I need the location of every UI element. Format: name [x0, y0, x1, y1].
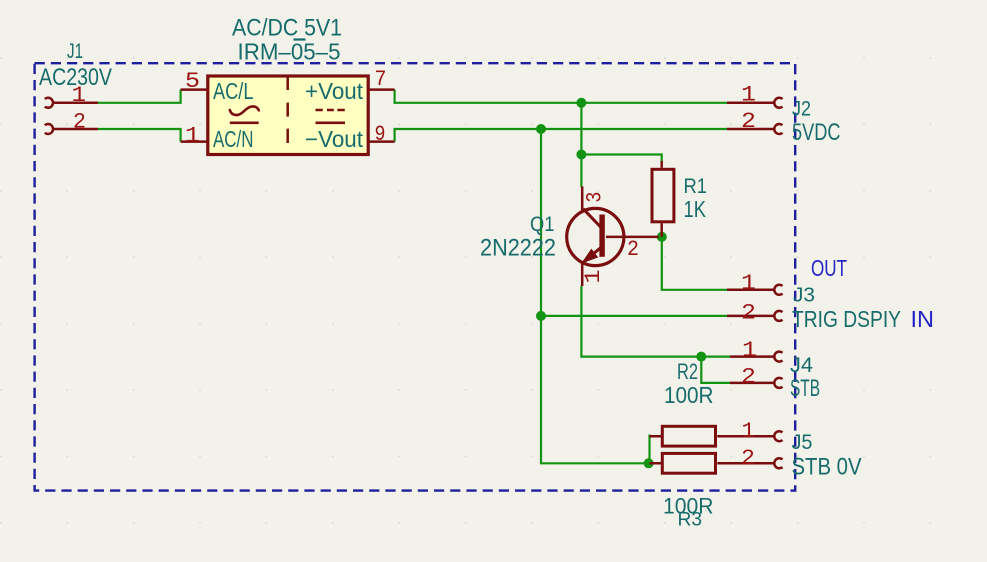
svg-text:AC/N: AC/N: [213, 126, 254, 152]
svg-text:TRIG DSPIY: TRIG DSPIY: [792, 306, 901, 332]
svg-text:2: 2: [741, 301, 756, 326]
svg-text:2N2222: 2N2222: [480, 235, 556, 262]
svg-text:J2: J2: [792, 98, 811, 121]
svg-text:1: 1: [581, 270, 606, 284]
svg-text:J5: J5: [792, 430, 813, 454]
svg-text:R2: R2: [677, 359, 698, 384]
svg-text:IRM–05–5: IRM–05–5: [238, 39, 341, 65]
svg-text:2: 2: [741, 109, 756, 134]
svg-text:1: 1: [741, 83, 756, 108]
svg-text:−Vout: −Vout: [305, 126, 364, 152]
svg-text:1: 1: [742, 419, 756, 444]
svg-text:2: 2: [741, 365, 756, 390]
svg-text:Q1: Q1: [530, 213, 555, 236]
svg-text:2: 2: [73, 110, 86, 135]
svg-text:R3: R3: [678, 509, 703, 531]
svg-text:J1: J1: [67, 40, 83, 63]
svg-text:STB 0V: STB 0V: [792, 454, 863, 481]
svg-text:1K: 1K: [684, 196, 707, 222]
svg-text:3: 3: [582, 192, 607, 203]
svg-text:100R: 100R: [664, 382, 714, 408]
svg-text:5VDC: 5VDC: [792, 119, 841, 146]
svg-text:9: 9: [375, 122, 386, 147]
svg-text:OUT: OUT: [811, 255, 847, 281]
svg-text:+Vout: +Vout: [305, 78, 364, 104]
svg-text:STB: STB: [790, 375, 820, 402]
svg-text:1: 1: [185, 124, 200, 149]
svg-text:5: 5: [185, 69, 200, 94]
svg-text:R1: R1: [684, 174, 708, 198]
svg-text:AC/L: AC/L: [213, 78, 254, 104]
svg-text:2: 2: [627, 237, 639, 262]
svg-text:AC/DC 5V1: AC/DC 5V1: [232, 15, 342, 42]
svg-text:IN: IN: [911, 306, 935, 332]
svg-text:2: 2: [741, 446, 755, 471]
svg-text:1: 1: [741, 271, 756, 296]
svg-text:1: 1: [72, 83, 87, 108]
svg-text:J3: J3: [793, 284, 815, 307]
svg-text:7: 7: [375, 67, 387, 92]
svg-text:J4: J4: [790, 353, 813, 377]
svg-text:1: 1: [742, 338, 757, 363]
